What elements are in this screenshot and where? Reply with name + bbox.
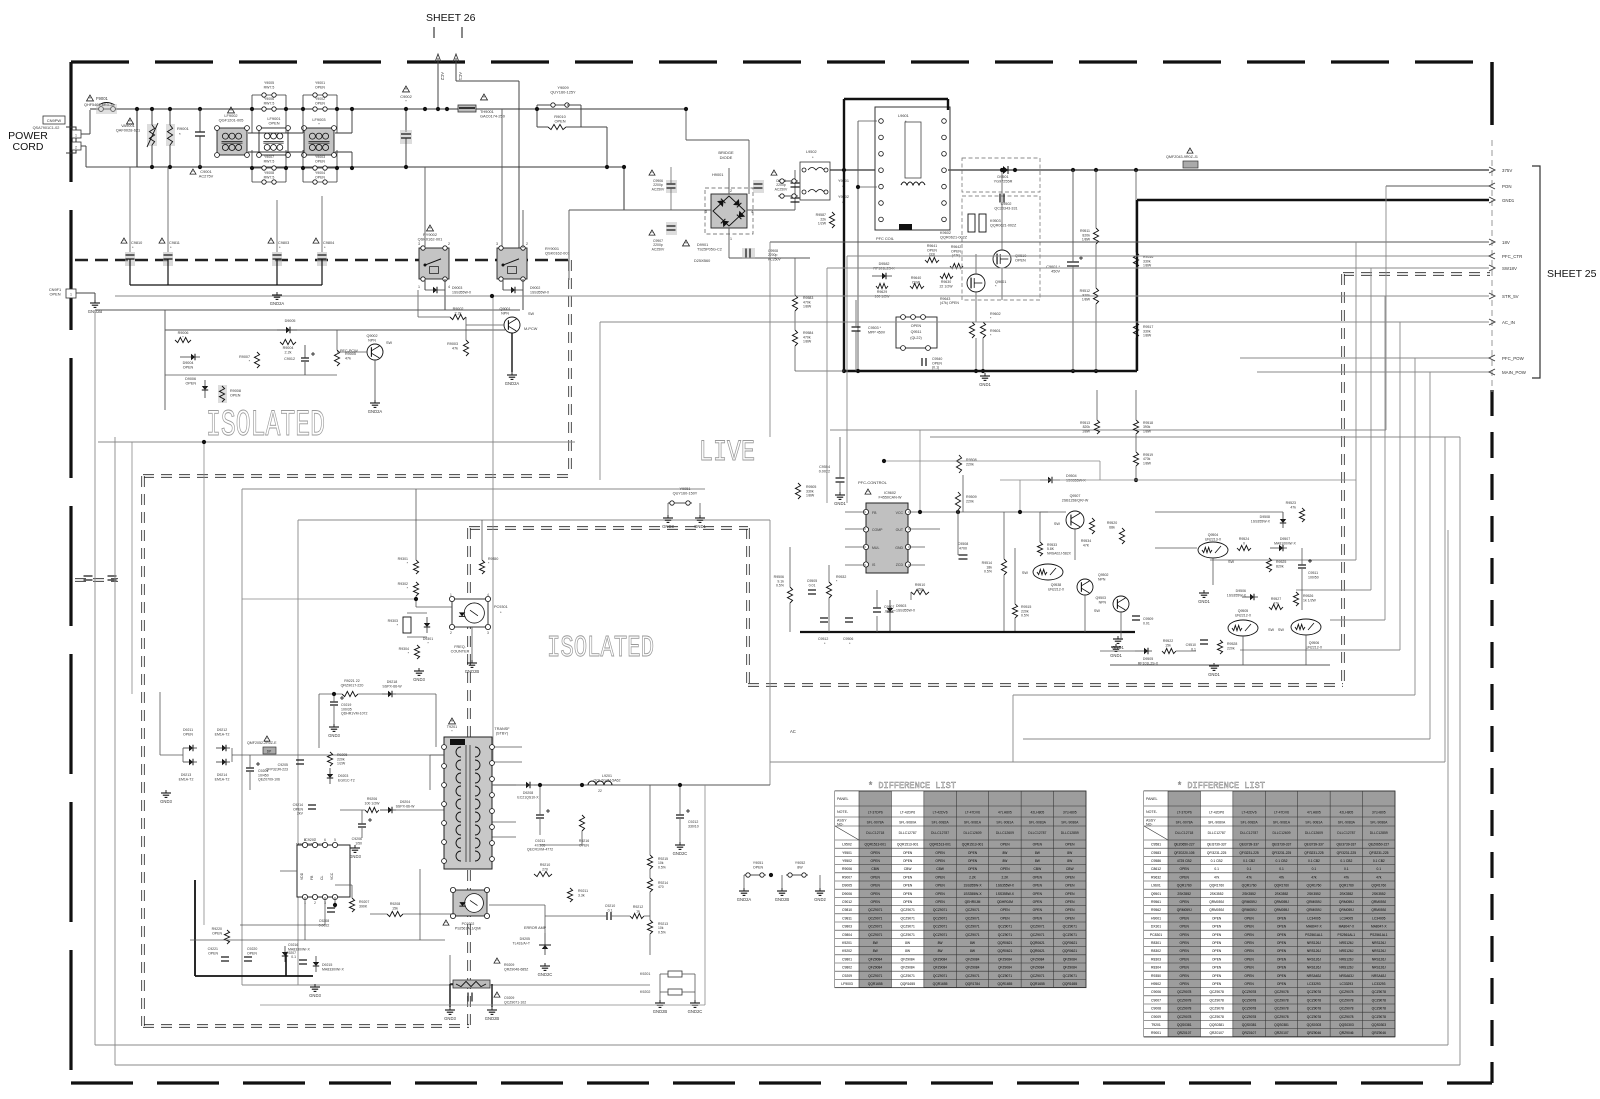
wire r9207 link (335, 884, 352, 886)
wire k9201 frame (660, 973, 668, 975)
svg-text:MAIN_POW: MAIN_POW (1502, 370, 1527, 375)
svg-text:OPEN: OPEN (1000, 843, 1010, 847)
wire fet src (1001, 268, 1003, 300)
svg-text:QCZ9078: QCZ9078 (1339, 990, 1353, 994)
svg-text:1/8W: 1/8W (1143, 264, 1152, 268)
resistor R9511 (1093, 228, 1098, 244)
resistor R9350 (479, 560, 484, 574)
svg-text:QRM059J: QRM059J (1242, 900, 1257, 904)
transformer T9201 warning triangle (449, 718, 456, 724)
svg-text:QCZ9078: QCZ9078 (1242, 1007, 1256, 1011)
capacitor C9012 (301, 358, 309, 361)
resistor R9525 label (1276, 560, 1286, 568)
svg-text:220k: 220k (966, 499, 974, 503)
wire y9051b right (699, 503, 701, 515)
resistor R9205 (327, 752, 332, 766)
svg-text:EM1A-T2: EM1A-T2 (179, 777, 194, 781)
resistor R9522 label (1163, 639, 1173, 647)
jumper Y9051b (668, 501, 692, 505)
ground GND2B k9201 (653, 1000, 668, 1014)
svg-text:LC34005: LC34005 (1307, 916, 1321, 920)
svg-text:1SS355W-X: 1SS355W-X (996, 892, 1015, 896)
svg-text:QQR1760: QQR1760 (1274, 884, 1289, 888)
capacitor C9508 label (958, 542, 969, 550)
resistor R9007 (254, 352, 259, 368)
svg-text:QHF5402-6R3-J1: QHF5402-6R3-J1 (84, 103, 114, 107)
ic IC9201 label (296, 838, 325, 847)
wire r9516 chain3 (1135, 338, 1137, 371)
opto PC9202 label (455, 922, 481, 930)
jumper Y9004 label (315, 171, 325, 179)
svg-text:C9810: C9810 (842, 908, 852, 912)
svg-text:OPEN: OPEN (911, 324, 922, 328)
svg-text:(STBY): (STBY) (496, 732, 509, 736)
shunt D9205 TL431 (539, 933, 551, 955)
arrow GND1 (1489, 197, 1495, 203)
ic IC9201 body (297, 838, 350, 905)
line filter LF9001 (257, 126, 291, 158)
svg-text:C9586: C9586 (1151, 859, 1161, 863)
svg-text:C9508: C9508 (958, 542, 969, 546)
svg-text:68k: 68k (1109, 525, 1115, 529)
component R9209 warning triangle (494, 958, 500, 963)
svg-text:15k: 15k (1165, 643, 1171, 647)
wire q9002 em (374, 360, 376, 400)
svg-text:R9601: R9601 (990, 329, 1001, 333)
svg-text:QFZ9084: QFZ9084 (1030, 957, 1044, 961)
svg-text:QCZ9078: QCZ9078 (1372, 1015, 1386, 1019)
svg-text:C9012: C9012 (842, 900, 852, 904)
relay RY9002 label (418, 232, 443, 242)
svg-text:K9503: K9503 (990, 219, 1001, 223)
svg-text:C9512: C9512 (818, 637, 828, 641)
svg-text:8W: 8W (873, 949, 879, 953)
resistor R9587 label (816, 213, 827, 226)
wire 18V (770, 241, 1489, 243)
bridge dashed box (705, 188, 753, 234)
wire relay2 feed (424, 167, 426, 248)
wire loop bottom h1065 (115, 1064, 1460, 1066)
wire bridge bottom out (729, 257, 810, 259)
LF9003 label (312, 117, 325, 127)
wire loop h437 (98, 441, 575, 443)
resistor R9004 label (283, 346, 294, 355)
capacitor C9206 label (352, 837, 362, 845)
svg-text:SSPX-66-W: SSPX-66-W (396, 804, 416, 808)
wire sw18v drop (826, 268, 828, 503)
capacitor C9002 warning triangle (403, 86, 410, 92)
svg-text:OPEN: OPEN (1000, 908, 1010, 912)
svg-text:TL431/A/-T: TL431/A/-T (512, 941, 530, 945)
wire fb row (582, 915, 607, 917)
svg-text:R9562: R9562 (1151, 908, 1161, 912)
wire r9519 col2 (1135, 466, 1137, 480)
svg-text:R9006: R9006 (178, 331, 189, 335)
svg-text:QRM059J: QRM059J (1307, 900, 1322, 904)
wire secondary h520 (298, 519, 770, 521)
svg-text:QQR1655: QQR1655 (997, 982, 1012, 986)
svg-text:PANEL: PANEL (837, 797, 849, 801)
svg-text:47k: 47k (1246, 875, 1252, 879)
svg-text:0.1: 0.1 (1344, 867, 1349, 871)
wire r9206 row (340, 809, 365, 811)
diode D9212 (222, 745, 226, 751)
transistor Q9507 label (1062, 494, 1089, 502)
svg-text:GND3: GND3 (349, 854, 361, 859)
wire diode bridge left2 (159, 692, 161, 755)
wire left divider4 (795, 370, 844, 372)
svg-text:LT-47DV6: LT-47DV6 (965, 811, 980, 815)
resistor R9510 label (915, 583, 925, 591)
capacitor C9906 (666, 180, 677, 193)
wire q9506 e (1305, 635, 1307, 665)
wire q9002 base (337, 351, 367, 353)
component C9209 label (504, 996, 526, 1004)
svg-text:QEI3739-337: QEI3739-337 (1337, 843, 1357, 847)
varistor VA9001 label (116, 123, 140, 133)
wire C9804 top (321, 196, 323, 252)
svg-text:QGF1201-005: QGF1201-005 (219, 118, 244, 123)
svg-text:SFL-9078A: SFL-9078A (867, 821, 885, 825)
svg-text:PFC COIL: PFC COIL (876, 236, 895, 241)
capacitor C9208 label (319, 919, 330, 927)
live boundary dashed right top (1343, 272, 1490, 275)
label TRANSF STBY (494, 727, 510, 736)
wire q9001 em (511, 333, 513, 372)
svg-text:2.2K: 2.2K (1002, 875, 1010, 879)
svg-text:1: 1 (450, 593, 452, 597)
capacitor C9906 label (652, 179, 665, 191)
svg-text:CN9PW: CN9PW (47, 118, 62, 123)
svg-text:4: 4 (487, 593, 489, 597)
svg-text:D9004: D9004 (183, 361, 194, 365)
diode D9208 (526, 782, 530, 788)
svg-text:0.1: 0.1 (1191, 647, 1196, 651)
svg-text:C8612: C8612 (1151, 867, 1161, 871)
svg-text:GND2C: GND2C (688, 1009, 703, 1014)
ground GND2B y9052 (775, 888, 790, 902)
svg-text:QFZ9084: QFZ9084 (901, 957, 915, 961)
svg-text:RW7.5: RW7.5 (264, 101, 275, 105)
capacitor C9507 (873, 608, 881, 612)
svg-text:OPEN: OPEN (1212, 941, 1222, 945)
wire r9514 col (1003, 512, 1005, 559)
svg-text:1/8W: 1/8W (803, 340, 812, 344)
svg-text:H9001: H9001 (1151, 916, 1161, 920)
jumper Y9001 label (315, 81, 325, 89)
svg-text:R9561: R9561 (1151, 900, 1161, 904)
resistor R9303 box (403, 617, 411, 633)
svg-text:Y9052: Y9052 (795, 861, 805, 865)
svg-text:C9583: C9583 (1151, 851, 1161, 855)
svg-text:QAF0028-621: QAF0028-621 (116, 128, 140, 133)
svg-text:QEZ0709-106: QEZ0709-106 (258, 778, 280, 782)
resistor R9513 (1094, 420, 1099, 434)
svg-text:ERROR AMP: ERROR AMP (524, 926, 547, 930)
svg-text:Q9511: Q9511 (911, 330, 922, 334)
label FREQ COUNTER (451, 645, 470, 654)
svg-text:C9006: C9006 (1151, 990, 1161, 994)
wire bundle h1 (1210, 559, 1356, 561)
svg-text:1: 1 (418, 285, 420, 289)
wire bundle h3 (1330, 619, 1385, 621)
opto PC9202 warning triangle (443, 920, 449, 925)
ground GND3 y9051 (662, 515, 674, 529)
svg-text:GND2A: GND2A (368, 409, 383, 414)
svg-text:* DIFFERENCE LIST: * DIFFERENCE LIST (1177, 780, 1265, 791)
svg-text:QQR1760: QQR1760 (1177, 884, 1192, 888)
resistor R9005 (334, 350, 339, 366)
svg-text:QQR1513-001: QQR1513-001 (897, 843, 919, 847)
wire v1100 (1099, 461, 1101, 480)
svg-text:1/8W: 1/8W (1143, 461, 1152, 465)
svg-text:QCZ9071: QCZ9071 (1030, 974, 1044, 978)
wire live col2 (828, 565, 830, 582)
svg-text:OPEN: OPEN (935, 851, 945, 855)
wire fb row2 (611, 915, 630, 917)
resistor R9304 (414, 645, 419, 659)
shunt D9205 label (512, 937, 530, 945)
svg-text:3: 3 (496, 242, 498, 246)
svg-text:1/8W: 1/8W (806, 494, 815, 498)
svg-text:8W: 8W (905, 949, 911, 953)
capacitor C9506 (845, 618, 853, 622)
resistor R9534 (1089, 518, 1094, 534)
svg-text:SFL-9083A: SFL-9083A (1338, 821, 1356, 825)
svg-text:2: 2 (450, 631, 452, 635)
svg-text:OPEN: OPEN (903, 859, 913, 863)
wire C9803 down (276, 259, 278, 285)
wire diode bridge frame (182, 748, 184, 762)
wire relay1 sw (522, 279, 524, 310)
svg-text:R9003: R9003 (447, 342, 458, 346)
svg-text:NRSA02J-582X: NRSA02J-582X (1047, 551, 1072, 555)
border frame right upper (1490, 62, 1494, 125)
svg-text:QQR1655: QQR1655 (933, 982, 948, 986)
diode D9507 (1279, 545, 1283, 551)
inductor L9201 label (594, 774, 621, 782)
ground GND3 c9219 (328, 724, 340, 738)
svg-text:2: 2 (448, 242, 450, 246)
svg-text:QCZ9078: QCZ9078 (1339, 998, 1353, 1002)
capacitor C9907 label (652, 239, 665, 251)
resistor R9506 label (774, 575, 785, 588)
svg-text:GND3: GND3 (444, 1016, 456, 1021)
wire C9811 down (167, 259, 169, 285)
wire heavy gnd live (800, 631, 1135, 633)
wire r9208 row (403, 913, 455, 915)
component K9201 (668, 971, 682, 977)
svg-text:CBW: CBW (904, 867, 913, 871)
resistor R9205 label (337, 753, 347, 766)
wire err row (489, 904, 545, 906)
diode D9503 label (896, 604, 916, 612)
wire R9001 bottom (169, 145, 171, 167)
svg-text:DLLC12787: DLLC12787 (1240, 831, 1258, 835)
resistor R9304 label (399, 647, 410, 655)
ic Q9511 (896, 315, 937, 351)
svg-text:SFL-9086A: SFL-9086A (1370, 821, 1388, 825)
resistor R9302 (413, 582, 418, 596)
svg-text:C9506: C9506 (843, 637, 853, 641)
wire t9201 stub2 (492, 761, 522, 763)
svg-text:QQR0621: QQR0621 (997, 941, 1012, 945)
junction dots filter rails (250, 107, 354, 170)
svg-text:QCZ9071: QCZ9071 (933, 974, 947, 978)
wire r9350 up (481, 520, 483, 560)
wire v132 (131, 442, 133, 694)
jumper Y9051 (744, 873, 766, 877)
wire C9804 down (321, 259, 323, 285)
relay RY9002 (419, 246, 449, 281)
svg-text:0.1: 0.1 (1279, 867, 1284, 871)
diode D9204 label (396, 800, 416, 808)
svg-text:OPEN: OPEN (753, 865, 764, 869)
svg-text:MPP 450V: MPP 450V (868, 330, 886, 334)
wire Y9009 rightdrop (580, 105, 582, 127)
wire bundle taps (1306, 664, 1330, 666)
svg-text:OPEN: OPEN (1000, 916, 1010, 920)
resistor R9584 label (803, 331, 813, 344)
wire L9601 left bus (857, 121, 859, 371)
svg-text:H9001: H9001 (712, 172, 723, 177)
svg-text:QQR0621-002Z: QQR0621-002Z (990, 224, 1017, 228)
svg-text:OPEN: OPEN (1180, 949, 1190, 953)
svg-text:QCZ9078: QCZ9078 (1209, 1007, 1223, 1011)
capacitor C9220 (244, 957, 252, 961)
jumper Y9005 (252, 93, 286, 97)
svg-text:1: 1 (70, 293, 72, 297)
svg-text:K9201: K9201 (640, 972, 650, 976)
wire opto row left (242, 598, 416, 600)
diode D9507 label (1274, 537, 1296, 545)
svg-text:OPEN: OPEN (871, 859, 881, 863)
diode D9218 (388, 691, 392, 697)
wire from pin1 (81, 133, 90, 135)
capacitor C9221 label (208, 947, 219, 955)
svg-text:4700: 4700 (959, 546, 967, 550)
svg-text:0.5%: 0.5% (984, 570, 992, 574)
svg-text:MA8330/W/-X: MA8330/W/-X (322, 967, 344, 971)
wire bridge in left (569, 209, 711, 211)
svg-text:CBW: CBW (1066, 867, 1075, 871)
wire L9601 left taps (858, 120, 877, 122)
wire q9601 src (975, 292, 977, 322)
resistor R9006 (175, 337, 191, 342)
svg-text:1SS355W-X: 1SS355W-X (896, 608, 916, 612)
resistor R9583 (792, 295, 797, 311)
wire q9601 gnd (975, 338, 977, 371)
svg-text:F4550CAN-W: F4550CAN-W (879, 496, 902, 500)
svg-text:T9201: T9201 (447, 725, 457, 729)
wire r9221 row (319, 693, 342, 695)
svg-text:Y9502: Y9502 (842, 859, 852, 863)
jumper Y9008 label (264, 171, 275, 179)
resistor R9512 label (1080, 289, 1091, 302)
svg-text:2SB1158/QR/-W: 2SB1158/QR/-W (1062, 498, 1089, 502)
svg-text:SHEET 25: SHEET 25 (1547, 268, 1597, 280)
resistor R9602 label (990, 312, 1001, 320)
wire Y9009 left (537, 104, 549, 106)
resistor R9212 label (633, 905, 643, 913)
svg-text:PON: PON (1502, 184, 1512, 189)
svg-text:GND1: GND1 (1502, 198, 1515, 203)
svg-text:QFI3231-225: QFI3231-225 (1337, 851, 1357, 855)
svg-text:QRZ0107: QRZ0107 (1177, 1031, 1191, 1035)
capacitor C9511 label (1308, 571, 1319, 579)
live boundary dashed bottom (748, 683, 1343, 686)
svg-text:220k: 220k (1227, 646, 1235, 650)
wire LF9003 out bottom (335, 151, 352, 153)
svg-text:TS25P05G-C2: TS25P05G-C2 (697, 248, 722, 252)
svg-text:D9006: D9006 (842, 892, 852, 896)
pin AC2 arrow (435, 54, 441, 109)
svg-text:QFZ9084: QFZ9084 (868, 957, 882, 961)
transistor Q9001 (504, 317, 520, 333)
resistor R9211 (567, 888, 572, 902)
transistor Q9506 (1291, 619, 1321, 635)
wire C9811 top (167, 167, 169, 252)
svg-text:OPEN: OPEN (315, 159, 325, 163)
resistor R9210 label (540, 863, 550, 871)
svg-text:OPEN: OPEN (1033, 916, 1043, 920)
svg-text:QQR0621: QQR0621 (1062, 941, 1077, 945)
svg-text:QEI3739-337: QEI3739-337 (1239, 843, 1259, 847)
capacitor C9209b (468, 993, 472, 1002)
svg-text:C9801: C9801 (842, 957, 852, 961)
wire mid h512 (1040, 511, 1066, 513)
diode D9211 (189, 745, 193, 751)
svg-text:375V: 375V (1502, 168, 1512, 173)
svg-text:LF9003: LF9003 (841, 982, 853, 986)
wire bridge loop down (748, 140, 750, 194)
wire CN9F1 down (94, 293, 96, 300)
svg-text:2: 2 (526, 242, 528, 246)
pin AC1 arrow (453, 54, 459, 81)
svg-text:OPEN: OPEN (1180, 933, 1190, 937)
svg-text:SFL-9082A: SFL-9082A (931, 821, 949, 825)
difference list table 1 (835, 780, 1086, 988)
svg-text:OPEN: OPEN (247, 951, 257, 955)
svg-text:OPEN: OPEN (1180, 941, 1190, 945)
sheet 25 bracket (1532, 166, 1540, 378)
svg-text:STR_5V: STR_5V (1502, 294, 1519, 299)
ground GND2B opto (465, 660, 480, 674)
capacitor C9001 label (199, 169, 214, 179)
svg-text:2.2k: 2.2k (285, 351, 292, 355)
svg-text:LT-37DP6: LT-37DP6 (868, 811, 883, 815)
svg-text:QCZ9078: QCZ9078 (1177, 990, 1191, 994)
wire heavy gnd bus (844, 370, 1137, 372)
dashed box pfc diode (962, 158, 1040, 192)
wire AC left drop (136, 109, 138, 167)
capacitor C9510 label (1186, 643, 1196, 651)
svg-text:330/10: 330/10 (688, 824, 699, 828)
diode D9004 label (183, 361, 194, 370)
live boundary dashed h1022 (143, 1024, 469, 1027)
svg-text:Q9001: Q9001 (499, 307, 510, 311)
svg-text:3: 3 (705, 210, 707, 214)
wire secondary v260 (241, 489, 243, 985)
svg-text:OPEN: OPEN (1277, 966, 1287, 970)
ground GND2A symbol (270, 292, 285, 306)
resistor R9010 label (554, 114, 566, 124)
svg-text:*: * (179, 132, 181, 137)
wire r9216 gnd (581, 831, 583, 845)
ground GND2 y9052 (814, 888, 826, 902)
svg-text:NRSA63J: NRSA63J (1307, 974, 1322, 978)
wire ic9602 is (845, 564, 866, 566)
